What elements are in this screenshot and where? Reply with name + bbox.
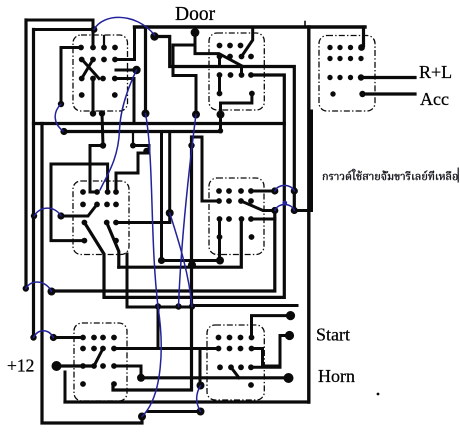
svg-text:R+L: R+L (419, 62, 452, 82)
node E-right lower a (271, 207, 278, 214)
node left border tap 3 (30, 334, 36, 340)
relay socket K2 outline (top-middle) (209, 33, 264, 110)
node G1 below K7 (197, 382, 205, 390)
node J4 (door feed) (150, 32, 158, 40)
wire K1 r2c4 to top bus (115, 27, 135, 60)
wire left vertical to K4 r4c1 (51, 164, 84, 241)
wire node T3 up-left stair (173, 45, 196, 115)
wire stair to K4 r1c3 (51, 164, 108, 192)
wire node to K1 pin r1c2 (92, 30, 95, 48)
wire bottom rail B2 (65, 400, 309, 403)
jumper blue left S-curve (55, 104, 63, 131)
wire node T2 to K2 r4c2 (221, 94, 252, 115)
node K5 bottom link a (158, 257, 165, 264)
wire jog to K7 r2c4 (252, 349, 281, 367)
relay socket K1 pins (78, 45, 118, 98)
node Horn terminal (284, 373, 294, 383)
wire K5 r3c4 to vertical (251, 218, 275, 221)
node H3 left end (48, 288, 56, 296)
wire H5b rail (192, 304, 297, 307)
node K3 Acc pin (359, 91, 365, 97)
wire horn rail (141, 376, 289, 379)
wire K7 diagonal to horn rail (231, 367, 239, 378)
wire top bus under Door (135, 25, 366, 28)
wire stub L2 to node J5 (132, 132, 134, 146)
wire top-left inner border (34, 28, 94, 31)
node Start2 terminal (285, 331, 294, 340)
wire K6 crossover diagonal (94, 349, 103, 367)
wire comb vertical v161 to K5 bottom link (162, 132, 221, 261)
jumper blue from T3 long wavy (179, 115, 197, 307)
node L2 left end (60, 128, 67, 135)
wire K2 r3c1 to r4c1 (218, 75, 221, 94)
wire left border vertical B (32, 30, 35, 338)
wire L2 riser to node T2 (219, 115, 222, 132)
node T2 below K2 (217, 111, 225, 119)
wire drop to node G1 (199, 349, 202, 386)
relay socket K5 pins (216, 188, 254, 240)
wire D-feed to K4 r2c2 (61, 204, 97, 216)
wire H5 node to K7 r2 (158, 347, 219, 350)
wire RB rail long to node E-right (52, 211, 275, 292)
wire node below K1 down to node J2 (102, 114, 103, 146)
wire node J2 staircase to K4 r1c2 (90, 146, 103, 193)
node E-right upper a (271, 187, 278, 194)
node blue Y junction (282, 201, 287, 206)
node left border tap (31, 213, 37, 219)
wire K5 r3c1 down through r4c1 (218, 219, 221, 261)
relay socket K6 outline (bottom-left, +12) (74, 323, 127, 401)
node E-right upper b (291, 187, 298, 194)
node H5 dot b (175, 303, 181, 309)
relay socket K5 outline (middle) (209, 178, 264, 255)
node H5 dot c (189, 303, 195, 309)
wire +12 feed to K6 r3 (57, 364, 95, 367)
node L2 right via (open) (219, 129, 223, 133)
node H5 dot a (155, 303, 161, 309)
jumper blue hop left tap 2 (26, 282, 52, 291)
wire riser K2 r3c3 (240, 67, 243, 76)
jumper blue hop upper pair (275, 185, 295, 191)
node comb v192 junction (188, 261, 196, 269)
svg-text:+12: +12 (7, 356, 34, 376)
node J2 mid-left (100, 142, 106, 148)
wire left feed to K1 r1c1 (61, 48, 81, 105)
wire K7 r1c4 to Start node (252, 316, 291, 338)
node ground jumper (50, 334, 57, 341)
jumper blue arc top-left (94, 17, 155, 35)
node end of left drop (58, 101, 64, 107)
wire short rail to node G2 (148, 410, 201, 413)
wire tick above top bus (304, 22, 306, 28)
wire K7 r3c4 to Start2 node (251, 336, 290, 368)
wire main right vertical (307, 27, 310, 402)
wire top bus drop node J3 to K2 (195, 27, 241, 66)
wire K6 r3c4 to horn rail (114, 366, 141, 378)
relay socket K2 pins (217, 43, 255, 97)
jumper blue hop left tap 3 (34, 331, 54, 338)
wire H5a rail (127, 254, 192, 307)
relay socket K1 outline (top-left) (73, 35, 128, 111)
wire K2 r3c4 right-down to H2 rail and K4 diagonal (84, 75, 284, 297)
wire node J5 staircase to K4 r1c4 (116, 146, 149, 193)
wire comb vertical v170 (168, 132, 171, 223)
wire top bus drop to node T1 (144, 27, 147, 114)
node J3 (top bus tap) (191, 28, 200, 37)
wire bus L2 horizontal (64, 130, 221, 133)
jumper blue G1-G2 link (197, 386, 201, 412)
wire K5 r2c3 diagonal to node (241, 201, 275, 211)
node K5 bottom link b (216, 257, 224, 265)
node comb b (143, 148, 149, 154)
wire top bus drop diagonal to K2 r2c3 (242, 27, 253, 57)
jumper blue hop left tap (34, 208, 61, 216)
wire K5 r1c4 to node (251, 190, 275, 193)
node bottom rail riser (138, 413, 146, 421)
node comb v170 junction (166, 209, 174, 217)
wire K1 crossover diagonal 1 (82, 60, 99, 79)
node K3 feed pin (358, 44, 365, 51)
wire bus L1 horizontal (34, 122, 285, 125)
wire riser K2 r2c1 (218, 57, 221, 67)
node T1 below K1 (142, 110, 150, 118)
node T3 below K2 (192, 111, 200, 119)
wire RA rail to K5 r3c3 (119, 219, 242, 267)
relay socket K4 outline (middle-left) (73, 181, 129, 255)
jumper blue from v170 junction (170, 213, 192, 307)
node E-right lower b (291, 207, 298, 214)
wire K1 r3c2 down to node (92, 79, 95, 114)
wire top bus drop to K3 (362, 27, 365, 46)
jumper blue from T1 long wavy (146, 114, 159, 307)
wire K1 r3c4 down to bus L1 (115, 79, 134, 124)
node below K1 b (99, 110, 105, 116)
svg-text:Start: Start (316, 325, 350, 345)
wire stub K1 r1c3 up (103, 36, 105, 48)
node +12 terminal (52, 361, 62, 371)
label Thai note (ground: use remaining relay jumper wire) (323, 168, 459, 183)
relay socket K4 pins (80, 189, 119, 243)
wire node X2 to main vertical (294, 111, 311, 211)
wire K4 r3c4 to comb vertical (116, 221, 170, 224)
wire comb vertical v192 long (113, 137, 192, 390)
node Start terminal (286, 311, 295, 320)
relay socket K3 outline (top-right, R+L/Acc) (319, 36, 375, 112)
svg-text:Door: Door (175, 4, 216, 25)
relay socket K6 pins (80, 335, 117, 387)
jumper blue big right arc (142, 307, 161, 417)
wire stub at node J1 (116, 69, 137, 72)
wire bottom rail B2 left riser (64, 372, 67, 402)
node K3 RL pin (358, 74, 364, 80)
node J5 (130, 143, 136, 149)
relay socket K7 pins (216, 335, 255, 388)
wire K1 crossover diagonal 2 (82, 60, 93, 79)
wire top-left outer border (26, 20, 93, 30)
wire ground jumper to K6 r1c1 (53, 336, 83, 339)
wire comb link to K5 r2c1 (192, 137, 220, 201)
jumper blue from J1 wavy down (100, 70, 137, 190)
node D-feed (57, 212, 64, 219)
node horn rail left (137, 374, 145, 382)
relay socket K3 pins (327, 45, 363, 97)
jumper blue hop lower pair (275, 205, 295, 211)
node left border tap 2 (23, 285, 29, 291)
wire K3 r3c4 to R+L (361, 76, 415, 79)
wire K6 r2c4 up to H5 node (114, 307, 158, 349)
svg-text:Acc: Acc (420, 89, 449, 109)
wire left border vertical A (24, 20, 27, 289)
node below K1 a (90, 110, 96, 116)
relay socket K7 outline (bottom-middle, Start/Horn) (207, 325, 264, 400)
node top-left junction (91, 26, 98, 33)
node stray mark bottom right (377, 393, 380, 396)
node G2 bottom (197, 408, 205, 416)
node comb a (188, 142, 194, 148)
wire K4 diagonal 2 down to H4 rail (107, 223, 119, 268)
svg-text:Horn: Horn (318, 366, 355, 386)
wire node J4 long path to H3 rail (155, 37, 295, 211)
wire K3 r4c2 to Acc (363, 92, 416, 95)
wire long left vertical to bottom rail (42, 124, 142, 424)
node J1 right of K1 (132, 66, 140, 74)
